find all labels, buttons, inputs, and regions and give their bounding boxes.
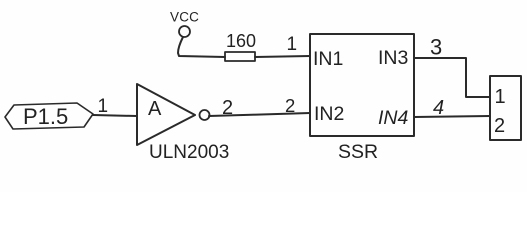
resistor R (160) body bbox=[225, 52, 255, 61]
svg-text:IN2: IN2 bbox=[314, 103, 344, 125]
svg-text:IN1: IN1 bbox=[313, 48, 343, 70]
svg-text:4: 4 bbox=[433, 97, 444, 119]
wire flag to gate input bbox=[93, 115, 137, 116]
svg-text:A: A bbox=[148, 98, 162, 120]
svg-text:2: 2 bbox=[285, 95, 295, 116]
svg-text:IN3: IN3 bbox=[378, 47, 408, 69]
svg-text:2: 2 bbox=[222, 97, 233, 119]
svg-text:ULN2003: ULN2003 bbox=[149, 142, 229, 163]
wire IN4 to connector pin 2 bbox=[414, 116, 490, 117]
svg-text:160: 160 bbox=[226, 31, 256, 51]
wire VCC to resistor bbox=[178, 37, 225, 57]
svg-text:3: 3 bbox=[430, 35, 442, 60]
svg-text:2: 2 bbox=[494, 115, 505, 137]
svg-text:1: 1 bbox=[98, 96, 109, 117]
VCC terminal circle bbox=[179, 26, 190, 37]
svg-text:IN4: IN4 bbox=[378, 107, 409, 129]
connector J1 box bbox=[490, 76, 521, 140]
wire resistor to IN1 bbox=[255, 56, 310, 57]
svg-text:VCC: VCC bbox=[170, 10, 199, 25]
svg-text:1: 1 bbox=[495, 86, 506, 108]
inverter bubble bbox=[200, 110, 210, 120]
wire IN3 to connector pin 1 bbox=[414, 58, 490, 97]
op-amp U1 triangle (ULN2003 gate A) bbox=[137, 84, 195, 145]
net flag P1.5 outline bbox=[5, 103, 93, 129]
wire bubble to IN2 bbox=[209, 113, 310, 116]
SSR box U2 bbox=[310, 34, 414, 136]
svg-text:P1.5: P1.5 bbox=[23, 104, 68, 129]
svg-text:SSR: SSR bbox=[338, 141, 378, 163]
svg-text:1: 1 bbox=[287, 34, 298, 55]
